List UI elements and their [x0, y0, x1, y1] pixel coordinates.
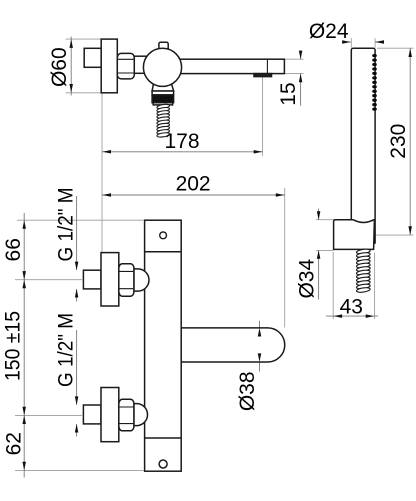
wire chain dim extension top (body top) [17, 219, 144, 221]
wire dim 230 extension top [377, 47, 414, 49]
wire chain dim extension lower fitting axis [15, 414, 82, 416]
wire centerline of spout outlet [262, 77, 264, 156]
wire dim 230 dimension line [409, 48, 411, 235]
svg-text:66: 66 [2, 238, 25, 261]
svg-text:Ø60: Ø60 [48, 47, 71, 87]
svg-text:15: 15 [277, 82, 300, 105]
wire dim 15 dimension line [300, 51, 302, 106]
wire dim G1/2 upper leader line [76, 196, 78, 302]
svg-text:62: 62 [3, 432, 26, 455]
wall flange Ø60 (side view) [101, 39, 117, 93]
upper supply stub (front view) [83, 270, 101, 289]
connector between nut and valve body [134, 56, 149, 73]
spout end cap divider line [266, 59, 268, 73]
collar ring [152, 91, 174, 95]
svg-text:Ø24: Ø24 [309, 20, 349, 43]
hex nut (side view) [117, 53, 134, 79]
aerator outlet [254, 74, 272, 77]
wire dim 230 extension bottom [376, 234, 414, 236]
hose coil below valve (spring) [157, 104, 170, 110]
svg-text:178: 178 [164, 130, 199, 153]
wire dim 43 extension lines [333, 252, 374, 319]
wire dim Ø60 extension lines [66, 39, 102, 93]
top mounting plate line [145, 251, 182, 253]
knob on top of valve body [159, 42, 168, 51]
bottom mounting plate line [145, 437, 182, 439]
wire dim Ø60 dimension line [70, 37, 72, 96]
bottom plate screw hole [159, 460, 167, 468]
black hose nut band [152, 95, 174, 103]
wire dim 178 left extension [101, 94, 103, 156]
hose cone under bracket [353, 241, 375, 250]
shower hose coil (spring) below bracket [356, 248, 370, 254]
spout (side view) [176, 59, 284, 73]
wire dim 178 dimension line [102, 151, 263, 153]
upper hex nut (front view) [119, 264, 134, 297]
wire dim Ø34 dimension line [318, 209, 320, 300]
lower connector bulge [134, 404, 148, 426]
wall bracket for hand shower [334, 220, 375, 250]
spray nozzle dots on wand edge [372, 54, 377, 111]
upper connector bulge [134, 269, 149, 291]
wire chain dim extension bottom (body bottom) [15, 469, 144, 471]
wire dim Ø34 extension lines [316, 220, 334, 251]
wire chain dimension line 66/150/62 [23, 213, 25, 478]
collar neck below valve body [152, 84, 174, 91]
svg-text:150 ±15: 150 ±15 [2, 311, 25, 381]
spout (front view) [181, 328, 285, 362]
valve body (circle, side view) [143, 48, 181, 86]
lower hex nut (front view) [119, 399, 134, 431]
wire dim 202 dimension line [102, 194, 285, 196]
upper wall flange (front view) [101, 253, 119, 306]
supply stub (side view) [84, 48, 101, 67]
wire dim G1/2 lower leader line [76, 330, 78, 437]
mixer body column [145, 220, 182, 471]
wire dim Ø24 dimension line [345, 41, 384, 43]
svg-text:43: 43 [340, 295, 363, 318]
wire dim Ø24 extension lines [351, 38, 375, 48]
svg-text:G 1/2" M: G 1/2" M [55, 188, 78, 262]
wire dim 202 right extension [284, 188, 286, 328]
lower supply stub (front view) [83, 405, 101, 424]
svg-text:Ø34: Ø34 [296, 259, 319, 299]
svg-text:202: 202 [176, 173, 211, 196]
top plate screw hole [160, 232, 167, 239]
svg-text:230: 230 [387, 124, 410, 159]
wire dim 43 dimension line [326, 315, 378, 317]
wire chain dim extension upper fitting axis [15, 279, 82, 281]
wire dim 15 extension lines [284, 59, 304, 73]
svg-text:G 1/2" M: G 1/2" M [54, 313, 77, 387]
hand shower handle (wand) [351, 48, 375, 243]
wire dim 202 left extension [101, 156, 103, 253]
lower wall flange (front view) [101, 388, 119, 442]
wire dim Ø38 dimension line [259, 321, 261, 372]
svg-text:Ø38: Ø38 [236, 371, 259, 411]
hose nipple strip [153, 103, 172, 105]
